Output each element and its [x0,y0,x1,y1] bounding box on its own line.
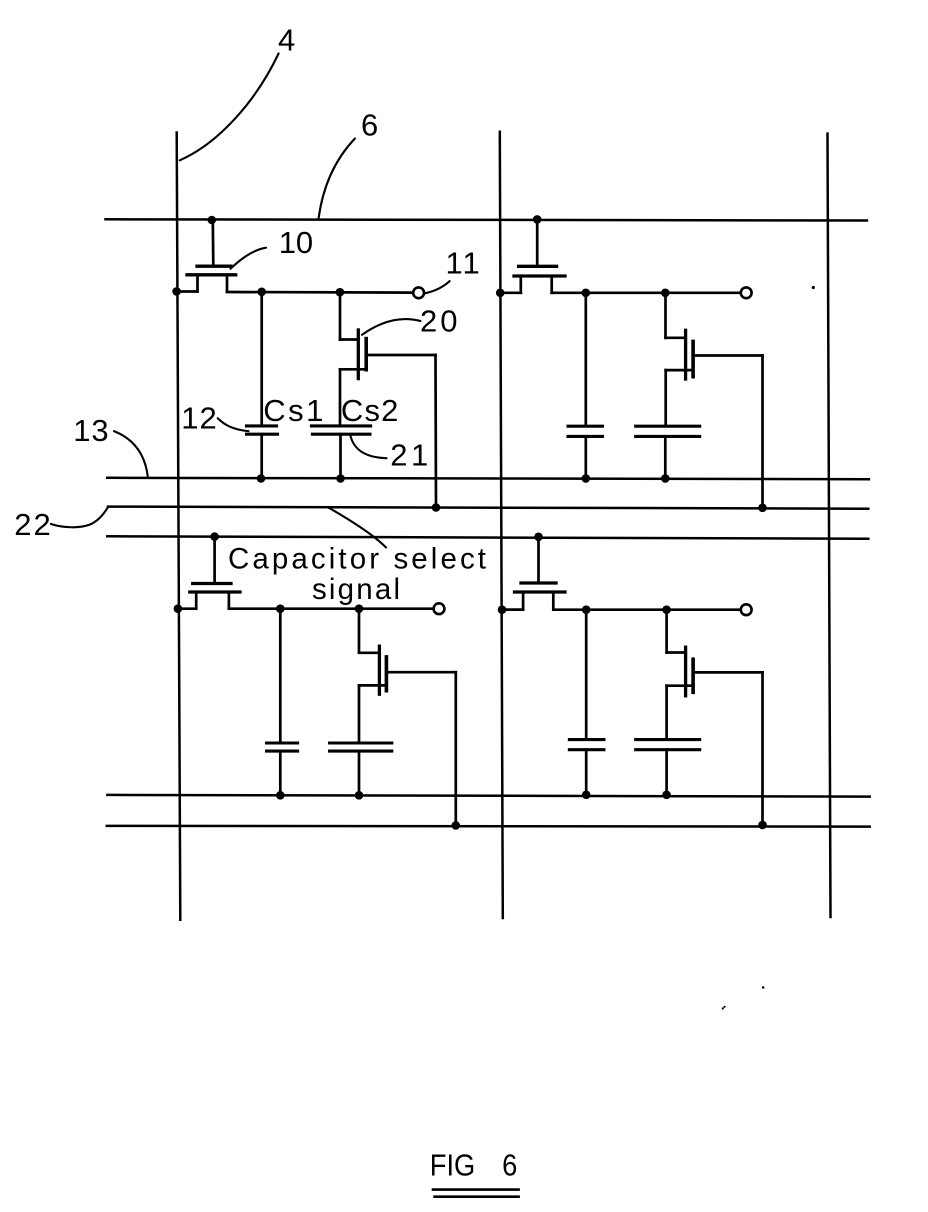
svg-text:4: 4 [278,23,295,58]
svg-text:22: 22 [14,507,52,542]
svg-text:Cs2: Cs2 [341,393,400,428]
svg-text:11: 11 [446,246,482,281]
svg-text:21: 21 [390,438,431,473]
svg-text:signal: signal [312,573,400,606]
svg-text:12: 12 [181,400,217,435]
svg-text:10: 10 [279,225,313,260]
svg-text:Capacitor select: Capacitor select [228,543,486,576]
svg-text:20: 20 [420,304,460,339]
svg-text:Cs1: Cs1 [263,393,326,428]
svg-text:6: 6 [502,1147,517,1182]
svg-text:6: 6 [361,107,378,142]
svg-text:13: 13 [73,413,109,448]
svg-text:FIG: FIG [430,1147,476,1182]
